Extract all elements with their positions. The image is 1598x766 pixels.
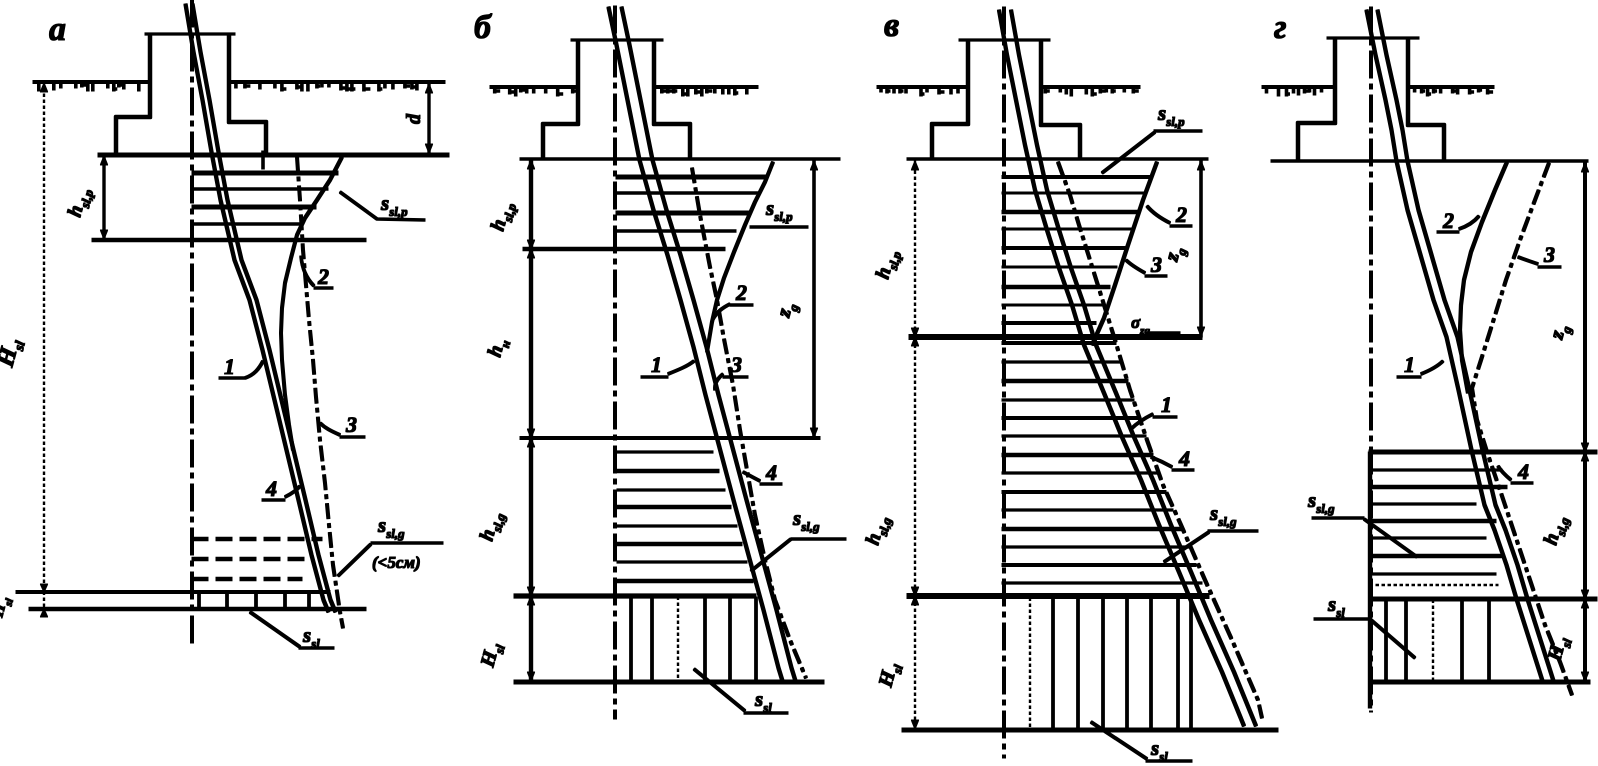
panel b: leader s_sl,g [751, 539, 791, 571]
panel b: s_sl,g hatch line 2 [617, 469, 719, 472]
panel b: bottom line of h_sl,p zone [523, 247, 725, 251]
panel g: curve 1 settlement line (right stroke) [1378, 10, 1554, 681]
svg-text:г: г [1274, 9, 1287, 46]
panel a: dashed settlement line 3 [192, 577, 302, 580]
panel a: ground line right [229, 81, 445, 84]
panel v: leader 1 [1131, 414, 1177, 429]
panel g: curve 1 settlement line (left stroke) [1367, 10, 1543, 681]
panel g: s_sl vertical hatch 1 [1385, 600, 1388, 681]
svg-text:3: 3 [730, 352, 742, 377]
panel g: s_sl vertical hatch 4 [1488, 600, 1491, 681]
panel b: dim arrows 438 [527, 438, 534, 447]
panel b: s_sl,g hatch line 3 [617, 489, 725, 491]
panel a: underline s_sl,g [371, 542, 443, 545]
panel a: arrow d top [425, 84, 432, 93]
panel b: leader s_sl [694, 669, 745, 711]
panel g: s_sl,g hatch line 6 [1372, 554, 1502, 557]
panel b: s_sl vertical hatch 4 [729, 597, 732, 681]
panel g: s_sl,g hatch line 5 [1372, 537, 1486, 539]
panel b: z_g arrow top [810, 161, 817, 170]
panel g: s_sl,g hatch line 1 [1372, 469, 1502, 471]
panel v: s_sl vertical hatch 7 [1190, 598, 1193, 729]
panel b: ground line right [654, 86, 758, 89]
panel v: s_sl vertical hatch 2 [1077, 598, 1080, 729]
panel b: s_sl vertical hatch 1 [630, 597, 633, 681]
panel v: leader 2 [1147, 206, 1192, 226]
panel v: s_sl,g hatch line 11 [1002, 527, 1182, 530]
panel v: foundation base line [907, 158, 1208, 161]
panel b: curve 3 (dash-dot) [692, 168, 806, 678]
panel b: s_sl vertical hatch 5 [755, 597, 758, 681]
panel b: z_g dimension line right [813, 159, 816, 438]
panel b: underline s_sl,p [750, 226, 808, 229]
panel v: bottom line of h_sl,g zone [907, 594, 1209, 599]
panel g: s_sl,g hatch line 3 [1372, 503, 1476, 505]
panel b: s_sl,p hatch line 2 [616, 192, 758, 195]
panel v: dim arrows 337 [911, 337, 918, 346]
panel a: ground hatching right [236, 83, 417, 91]
panel b: s_sl,g hatch line 8 [617, 579, 753, 582]
panel v: left dimension line (dotted) [914, 159, 916, 730]
panel b: s_sl vertical hatch 2 [651, 597, 654, 681]
panel g: foundation base line [1271, 160, 1588, 163]
panel v: s_sl,p hatch line 4 [1002, 228, 1132, 230]
panel b: s_sl,p hatch line 4 [616, 230, 736, 233]
panel g: s_sl,g hatch line 2 [1372, 485, 1507, 488]
panel a: s_sl vertical hatch 3 [255, 593, 258, 608]
panel b: foundation axis centerline [614, 6, 617, 719]
panel g: dim arrows 452 [1581, 452, 1588, 461]
panel g: leader 2 [1437, 216, 1479, 232]
panel v: ground line left [877, 86, 968, 89]
panel v: footing left outline [932, 40, 968, 159]
svg-text:1: 1 [224, 354, 235, 379]
panel v: s_sl,g hatch line 2 [1002, 361, 1122, 363]
panel v: curve 1 settlement line (right stroke) [1011, 10, 1256, 726]
panel v: s_sl,g hatch line 3 [1002, 379, 1128, 382]
svg-text:б: б [474, 9, 493, 46]
panel a: ground hatching left [39, 83, 139, 91]
panel g: footing left outline [1298, 38, 1335, 161]
panel a: arrow d bottom [425, 144, 432, 153]
panel v: curve 2 (s_sl,p envelope) [1092, 162, 1157, 345]
panel v: s_sl vertical hatch 6 [1177, 598, 1180, 729]
panel v: foundation axis centerline [1003, 7, 1006, 758]
panel a: s_sl,p hatch line 2 [192, 188, 328, 191]
panel g: top line of s_sl zone [1369, 597, 1597, 601]
panel b: s_sl,g hatch line 7 [617, 561, 747, 563]
panel g: dim arrow 682 [1581, 672, 1588, 681]
panel a: arrow H_sl zone bottom [40, 609, 47, 617]
panel g: bottom line of z_g zone [1369, 450, 1597, 454]
panel a: foundation base line [98, 153, 449, 157]
panel b: s_sl vertical hatch dotted [677, 597, 679, 681]
panel v: s_sl,p hatch line 9 [1002, 322, 1096, 325]
panel b: bottom line of h_sl,g zone [514, 594, 756, 598]
panel b: leader 3 [715, 374, 748, 390]
panel v: s_sl,p hatch line 5 [1002, 247, 1125, 250]
panel b: s_sl,g hatch line 6 [617, 542, 742, 545]
panel v: underline sigma [1145, 332, 1180, 335]
panel b: underline s_sl,g [791, 538, 846, 541]
panel g: footing right outline [1408, 38, 1444, 161]
panel b: leader 2 [713, 304, 753, 319]
panel a: leader 2 [301, 256, 333, 288]
panel v: s_sl,g hatch line 13 [1002, 564, 1196, 567]
panel a: top line of s_sl zone [16, 591, 330, 594]
panel g: ground line left [1262, 86, 1335, 89]
panel a: curve 3 (dash-dot) [297, 157, 343, 628]
panel v: s_sl,g hatch line 14 [1002, 582, 1202, 584]
panel v: dim arrow 159 [911, 161, 918, 170]
panel g: underline s_sl [1314, 618, 1371, 621]
panel b: bottom line of h_n zone [520, 437, 820, 440]
panel v: column top line [959, 39, 1050, 41]
panel a: dashed settlement line 2 [192, 557, 312, 560]
svg-text:4: 4 [765, 460, 777, 485]
panel v: ground hatching left [881, 88, 958, 96]
panel a: arrow h_sl,p top [100, 156, 107, 165]
svg-text:1: 1 [651, 352, 662, 377]
panel v: s_sl,g hatch line 7 [1002, 453, 1153, 456]
panel b: dim arrow 159 [527, 160, 534, 169]
panel b: s_sl,p hatch line 1 [616, 175, 766, 179]
panel g: foundation axis centerline [1370, 7, 1373, 712]
panel b: ground hatching right [662, 88, 747, 96]
panel v: s_sl vertical hatch 1 [1052, 598, 1055, 729]
panel a: dimension line h_sl,p [103, 155, 105, 240]
panel v: leader s_sl,g [1164, 532, 1209, 562]
panel g: ground hatching right [1415, 88, 1493, 96]
panel g: s_sl,g hatch line 7 [1372, 573, 1496, 575]
panel v: s_sl,g hatch line 6 [1002, 435, 1146, 437]
panel a: leader s_sl,g [338, 544, 371, 576]
panel b: curve 1 settlement line (left stroke) [609, 7, 783, 681]
panel b: footing right outline [654, 40, 690, 159]
panel v: leader 3 [1126, 260, 1167, 276]
panel v: s_sl,g hatch line 1 [1002, 342, 1116, 345]
panel g: leader 3 [1518, 257, 1561, 267]
panel a: leader s_sl [250, 612, 300, 647]
panel b: soil block left edge / dimension line [529, 159, 532, 682]
panel b: curve 2 (s_sl,p envelope) [707, 162, 773, 352]
panel g: curve 2 [1460, 162, 1507, 393]
panel g: soil block left edge [1368, 452, 1371, 708]
panel b: s_sl,g hatch line 1 [617, 451, 713, 453]
panel v: s_sl,g hatch line 10 [1002, 509, 1173, 511]
panel v: dim arrows 596 [911, 596, 918, 605]
panel v: underline s_sl [1146, 760, 1192, 763]
panel a: s_sl,p hatch line 4 [192, 223, 303, 226]
svg-text:3: 3 [345, 412, 357, 437]
panel v: dim arrow 730 [911, 720, 918, 729]
panel a: s_sl vertical hatch 4 [284, 593, 287, 608]
panel g: leader s_sl,g [1364, 519, 1417, 557]
panel a: column top line [145, 33, 235, 35]
panel a: leader s_sl,p [340, 192, 425, 220]
panel b: s_sl,g hatch line 5 [617, 525, 737, 527]
svg-text:1: 1 [1161, 392, 1172, 417]
panel a: s_sl vertical hatch 1 [198, 593, 201, 608]
panel v: s_sl vertical hatch 5 [1150, 598, 1153, 729]
svg-text:4: 4 [265, 476, 277, 501]
panel v: ground hatching right [1045, 88, 1138, 96]
panel v: s_sl vertical hatch dotted [1029, 598, 1031, 729]
panel g: bottom line of H_sl zone [1369, 680, 1590, 684]
panel v: footing right outline [1041, 40, 1080, 159]
panel a: foundation axis centerline [191, 0, 194, 645]
panel v: s_sl,p hatch line 7 [1002, 285, 1110, 288]
panel v: s_sl,p hatch line 1 [1002, 176, 1152, 179]
panel b: leader 4 [743, 472, 782, 484]
panel b: ground hatching left [495, 88, 578, 96]
panel a: footing left outline [116, 34, 150, 154]
panel b: s_sl,p hatch line 3 [616, 211, 750, 215]
panel a: dimension line H_sl (dotted) [43, 82, 45, 609]
panel g: curve 3 (dash-dot) [1472, 163, 1572, 695]
panel v: s_sl,p hatch line 2 [1002, 192, 1146, 194]
panel a: tick on base line [262, 151, 265, 169]
panel v: s_sl,g hatch line 5 [1002, 417, 1140, 420]
panel b: footing left outline [543, 40, 578, 159]
panel a: footing right outline [229, 34, 266, 154]
svg-text:d: d [403, 113, 425, 124]
panel g: ground hatching left [1267, 88, 1322, 96]
panel b: bottom line of H_sl zone [514, 680, 824, 684]
panel a: s_sl,p hatch line 3 [192, 205, 316, 209]
panel g: leader s_sl [1371, 620, 1415, 658]
panel b: column top line [571, 39, 663, 41]
panel b: dim arrow 682 [527, 672, 534, 681]
panel a: s_sl vertical hatch 5 [308, 593, 311, 608]
panel a: curve 1 settlement line (right stroke) [193, 4, 336, 612]
panel a: bottom line of s_sl zone [29, 607, 366, 610]
panel a: s_sl vertical hatch 2 [226, 593, 229, 608]
panel v: z_g dimension line [1200, 159, 1203, 337]
panel g: ground line right [1408, 86, 1494, 89]
panel v: z_g arrow top [1197, 161, 1204, 170]
panel b: dim arrows 596 [527, 596, 534, 605]
panel v: s_sl,p hatch line 3 [1002, 210, 1139, 213]
panel v: z_g arrow bottom [1197, 327, 1204, 336]
panel g: underline s_sl,g [1312, 517, 1364, 520]
panel v: s_sl,p hatch line 6 [1002, 266, 1117, 268]
panel v: bottom line of H_sl zone [902, 728, 1278, 732]
svg-text:4: 4 [1178, 446, 1190, 471]
panel g: leader 4 [1498, 466, 1533, 483]
panel v: leader 4 [1151, 457, 1194, 470]
panel b: underline s_sl [744, 712, 788, 715]
panel b: ground line left [490, 86, 578, 89]
panel a: arrow h_sl,p bottom [100, 230, 107, 239]
panel a: bottom line of h_sl,p zone [92, 238, 366, 242]
panel a: leader 4 [262, 486, 300, 500]
svg-text:2: 2 [317, 264, 329, 289]
panel a: arrow H top [40, 83, 47, 92]
panel g: leader 1 [1397, 361, 1443, 377]
panel a: curve 1 settlement line (left stroke) [186, 4, 329, 612]
panel g: right dimension line / soil block right edge [1584, 161, 1587, 682]
svg-text:1: 1 [1404, 352, 1415, 377]
svg-text:в: в [884, 7, 899, 44]
panel b: foundation base line [520, 158, 840, 161]
svg-text:2: 2 [1175, 202, 1187, 227]
panel v: s_sl,g hatch line 9 [1002, 491, 1166, 494]
panel v: s_sl,p hatch line 8 [1002, 304, 1102, 306]
panel g: dotted line above s_sl zone [1370, 584, 1498, 586]
panel g: column top line [1327, 37, 1419, 39]
panel a: s_sl,p hatch line 1 [192, 171, 338, 175]
panel v: curve 1 settlement line (left stroke) [999, 10, 1244, 726]
panel a: curve 2 (s_sl,p envelope) [281, 157, 342, 450]
panel a: leader 3 [320, 423, 365, 437]
panel a: ground line left [33, 81, 150, 84]
panel a: dimension line d [428, 82, 430, 154]
panel g: dim arrow 161 [1581, 163, 1588, 172]
svg-text:2: 2 [1442, 208, 1454, 233]
panel v: s_sl vertical hatch 3 [1102, 598, 1105, 729]
panel b: z_g arrow bottom [810, 428, 817, 437]
panel g: s_sl,g hatch line 4 [1372, 519, 1496, 522]
panel b: s_sl vertical hatch 3 [704, 597, 707, 681]
panel v: underline s_sl,g [1208, 530, 1258, 533]
panel v: leader s_sl,p [1102, 132, 1155, 173]
panel v: underline s_sl,p [1154, 130, 1202, 133]
panel v: curve 3 (dash-dot) [1058, 162, 1262, 718]
panel g: s_sl vertical hatch 3 [1461, 600, 1464, 681]
panel b: s_sl,g hatch line 4 [617, 505, 731, 508]
panel a: dashed settlement line 1 [192, 537, 322, 540]
panel a: underline s_sl [299, 647, 334, 650]
svg-text:а: а [49, 11, 66, 48]
panel b: dim arrows 249 [527, 249, 534, 258]
panel g: s_sl vertical hatch dotted [1432, 600, 1434, 681]
panel v: s_sl,g hatch line 8 [1002, 472, 1159, 474]
svg-text:4: 4 [1517, 459, 1529, 484]
panel g: dim arrows 599 [1581, 599, 1588, 608]
svg-text:2: 2 [735, 280, 747, 305]
panel b: curve 1 settlement line (right stroke) [622, 7, 796, 681]
panel v: bottom line of h_sl,p zone [909, 335, 1202, 340]
panel v: ground line right [1041, 86, 1140, 89]
panel a: leader 1 [219, 361, 263, 378]
panel g: s_sl vertical hatch 2 [1405, 600, 1408, 681]
panel b: leader 1 [641, 361, 694, 377]
panel v: s_sl vertical hatch 4 [1126, 598, 1129, 729]
panel v: s_sl,g hatch line 12 [1002, 546, 1189, 548]
svg-text:(<5см): (<5см) [372, 553, 421, 572]
panel v: leader s_sl [1091, 722, 1147, 759]
svg-text:3: 3 [1543, 242, 1555, 267]
panel a: arrow H_sl zone top [40, 584, 47, 592]
panel v: s_sl,g hatch line 4 [1002, 399, 1134, 401]
